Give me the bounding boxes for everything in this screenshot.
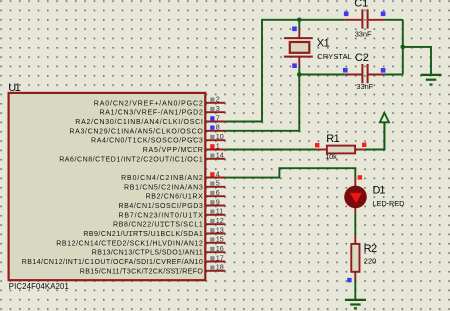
wire pin8 to crystal bottom rail [225, 75, 344, 131]
svg-text:RA1/CN3/VREF-/AN1/PGD2: RA1/CN3/VREF-/AN1/PGD2 [100, 110, 203, 117]
wire R1 to power arrow [365, 122, 385, 149]
C2 left plate [361, 64, 363, 83]
pin 3 state square [210, 107, 214, 111]
svg-text:RB14/CN12/INT1/C1OUT/OCFA/SDI1: RB14/CN12/INT1/C1OUT/OCFA/SDI1/CVREF/AN1… [22, 259, 203, 266]
pin 4 stub [206, 177, 225, 179]
svg-text:12: 12 [216, 216, 224, 225]
svg-text:13: 13 [216, 225, 224, 234]
pin 18 stub [206, 270, 225, 272]
C1 right pin state square [381, 12, 386, 17]
svg-text:7: 7 [216, 113, 220, 122]
svg-text:33nF: 33nF [355, 29, 372, 38]
power arrow head [380, 113, 389, 123]
svg-text:RB13/CN13/CTPLS/SDO1/AN11: RB13/CN13/CTPLS/SDO1/AN11 [92, 250, 203, 257]
svg-text:16: 16 [216, 244, 224, 253]
wire C1 right to vertical rail [384, 19, 403, 21]
svg-text:4: 4 [216, 169, 220, 178]
svg-text:15: 15 [216, 235, 224, 244]
svg-text:RB2/CN6/U1RX: RB2/CN6/U1RX [146, 194, 204, 201]
svg-text:5: 5 [216, 179, 220, 188]
R1 left pin state square [315, 143, 319, 147]
C2 left pin state square [343, 68, 348, 73]
pin 13 stub [206, 233, 225, 235]
svg-text:RB7/CN23/INT0/U1TX: RB7/CN23/INT0/U1TX [119, 212, 204, 219]
svg-text:33nF: 33nF [356, 82, 373, 91]
pin names inside chip, right aligned [22, 100, 204, 275]
C2 right plate [367, 64, 369, 83]
R1 right pin state square [362, 143, 366, 147]
pin numbers [216, 95, 224, 272]
svg-text:RB15/CN11/T3CK/T2CK/SS1/REFO: RB15/CN11/T3CK/T2CK/SS1/REFO [80, 268, 204, 275]
svg-text:18: 18 [216, 263, 224, 272]
pin 5 state square [210, 182, 214, 186]
svg-text:6: 6 [216, 188, 220, 197]
C1 right plate [367, 9, 369, 28]
pin 6 state square [210, 191, 214, 195]
svg-text:RB8/CN22/U1CTS/SCL1: RB8/CN22/U1CTS/SCL1 [113, 222, 203, 229]
svg-text:17: 17 [216, 253, 224, 262]
pin 13 state square [210, 228, 214, 232]
pin 11 state square [210, 210, 214, 214]
pin 8 state square [210, 126, 214, 130]
wire crystal top pin to rail [298, 20, 300, 29]
svg-text:PIC24F04KA201: PIC24F04KA201 [9, 282, 69, 291]
pin 12 stub [206, 223, 225, 225]
pin 9 state square [210, 200, 214, 204]
svg-text:D1: D1 [373, 184, 386, 196]
pin 14 state square [210, 154, 214, 158]
pin 18 state square [210, 266, 214, 270]
pin 17 state square [210, 256, 214, 260]
pin 4 state square [210, 172, 214, 176]
wire pin1 to R1 [225, 149, 317, 151]
R2 body [351, 244, 359, 272]
D1 body circle [344, 186, 367, 209]
R1 right pin [355, 149, 365, 151]
pin state squares [210, 98, 214, 270]
svg-text:RB4/CN1/SOSCI/PGD3: RB4/CN1/SOSCI/PGD3 [119, 203, 203, 210]
svg-text:R1: R1 [326, 133, 340, 145]
svg-text:3: 3 [216, 104, 220, 113]
wire C2 right to vertical rail [384, 74, 403, 76]
svg-text:CRYSTAL: CRYSTAL [317, 52, 352, 61]
svg-text:10: 10 [216, 132, 224, 141]
pin 17 stub [206, 261, 225, 263]
junction node crystal top rail [297, 18, 302, 23]
junction node crystal bottom rail [297, 72, 302, 77]
ground bottom bar3 [354, 307, 357, 309]
pin 7 state square [210, 116, 214, 120]
D1 top pin [354, 178, 356, 187]
ground bottom bar1 [345, 299, 366, 301]
crystal X1 top pin [298, 29, 300, 38]
svg-text:220: 220 [364, 257, 377, 266]
pin 1 state square [210, 144, 214, 148]
svg-text:X1: X1 [317, 38, 330, 50]
svg-text:RA0/CN2/VREF+/AN0/PGC2: RA0/CN2/VREF+/AN0/PGC2 [94, 100, 203, 107]
C1 left plate [361, 9, 363, 28]
svg-text:LED-RED: LED-RED [373, 199, 405, 208]
crystal X1 bottom pin [298, 57, 300, 66]
C2 left pin [345, 74, 363, 76]
svg-text:RA4/CN0/T1CK/SOSCO/PGC3: RA4/CN0/T1CK/SOSCO/PGC3 [91, 138, 203, 145]
R2 top pin [354, 235, 356, 244]
C1 left pin state square [344, 12, 349, 17]
svg-text:1: 1 [216, 141, 220, 150]
pin 11 stub [206, 214, 225, 216]
ground right bar2 [426, 79, 436, 81]
C2 right pin [368, 74, 385, 76]
svg-text:9: 9 [216, 197, 220, 206]
D1 top pin state square [358, 175, 362, 179]
pin 16 stub [206, 251, 225, 253]
R1 body [327, 146, 355, 154]
wire crystal bottom pin to rail [298, 66, 300, 75]
pin 7 stub [206, 121, 225, 123]
svg-text:RB1/CN5/C2INA/AN3: RB1/CN5/C2INA/AN3 [124, 184, 203, 191]
pin 10 stub [206, 139, 225, 141]
wire to ground right [403, 47, 431, 75]
ground bottom bar2 [350, 303, 360, 305]
pin 6 stub [206, 195, 225, 197]
crystal X1 bottom pin state square [292, 63, 297, 68]
crystal X1 top plate [284, 37, 313, 39]
D1 triangle [350, 193, 362, 203]
pin stubs right side, top group [206, 103, 225, 271]
chip U1 body [9, 93, 206, 280]
pin 2 stub [206, 102, 225, 104]
svg-text:RA2/CN30/C1INB/AN4/CLKI/OSCI: RA2/CN30/C1INB/AN4/CLKI/OSCI [75, 119, 203, 126]
pin 1 stub [206, 149, 225, 151]
pin 16 state square [210, 247, 214, 251]
pin 15 stub [206, 242, 225, 244]
pin 10 state square [210, 135, 214, 139]
pin 8 stub [206, 130, 225, 132]
svg-text:R2: R2 [364, 243, 378, 255]
svg-text:C1: C1 [354, 0, 368, 10]
svg-text:RB0/CN4/C2INB/AN2: RB0/CN4/C2INB/AN2 [121, 175, 203, 182]
crystal X1 top pin state square [292, 27, 297, 32]
svg-text:11: 11 [216, 207, 223, 216]
C1 left pin [345, 19, 363, 21]
D1 bottom pin [354, 207, 356, 214]
svg-text:U1: U1 [8, 82, 21, 94]
pin 15 state square [210, 238, 214, 242]
wire LED to R2 [354, 214, 356, 235]
svg-text:14: 14 [216, 151, 224, 160]
ground right bar1 [421, 74, 442, 76]
R1 left pin [317, 149, 327, 151]
wire pin7 to crystal top rail [225, 20, 344, 122]
junction node right rail [401, 45, 406, 50]
crystal X1 body [290, 42, 310, 53]
svg-text:RA3/CN29/C1INA/AN5/CLKO/OSCO: RA3/CN29/C1INA/AN5/CLKO/OSCO [69, 128, 203, 135]
pin 2 state square [210, 98, 214, 102]
R2 bottom pin state square [347, 278, 351, 282]
wire pin4 to LED [225, 168, 355, 178]
svg-text:2: 2 [216, 95, 220, 104]
svg-text:RB12/CN14/CTED2/SCK1/HLVDIN/AN: RB12/CN14/CTED2/SCK1/HLVDIN/AN12 [56, 240, 203, 247]
svg-text:8: 8 [216, 123, 220, 132]
R2 bottom pin [354, 272, 356, 281]
svg-text:RB9/CN21/U1RTS/U1BCLK/SDA1: RB9/CN21/U1RTS/U1BCLK/SDA1 [83, 231, 202, 238]
pin 9 stub [206, 205, 225, 207]
svg-text:RA5/VPP/MCLR: RA5/VPP/MCLR [143, 147, 203, 154]
svg-text:10k: 10k [325, 152, 337, 161]
pin 3 stub [206, 111, 225, 113]
C2 right pin state square [381, 68, 386, 73]
crystal X1 bottom plate [284, 56, 313, 58]
wire vertical rail right of caps [402, 20, 404, 75]
svg-text:RA6/CN8/CTED1/INT2/C2OUT/IC1/O: RA6/CN8/CTED1/INT2/C2OUT/IC1/OC1 [59, 156, 203, 163]
pin 12 state square [210, 219, 214, 223]
ground right bar3 [430, 83, 433, 85]
pin 14 stub [206, 158, 225, 160]
pin 5 stub [206, 186, 225, 188]
power arrow stem [383, 122, 385, 149]
svg-text:C2: C2 [355, 52, 369, 64]
C1 right pin [368, 19, 385, 21]
wire R2 to ground [354, 281, 356, 300]
